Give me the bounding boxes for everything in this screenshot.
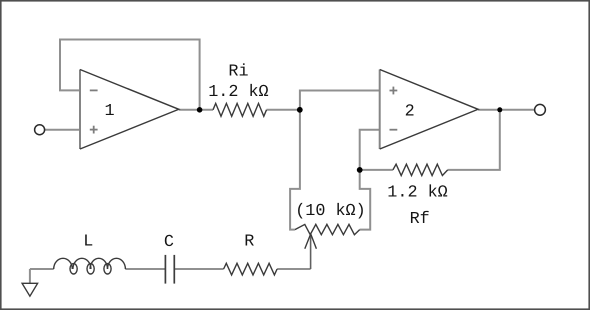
svg-text:1.2 kΩ: 1.2 kΩ [387,183,447,202]
svg-text:C: C [164,233,174,252]
svg-text:Ri: Ri [228,63,248,82]
svg-text:1.2 kΩ: 1.2 kΩ [208,83,268,102]
svg-text:L: L [83,233,93,252]
svg-text:(10 kΩ): (10 kΩ) [295,202,366,221]
svg-text:Rf: Rf [410,210,430,229]
svg-text:1: 1 [105,102,115,121]
svg-text:2: 2 [405,103,415,122]
svg-text:R: R [244,233,254,252]
